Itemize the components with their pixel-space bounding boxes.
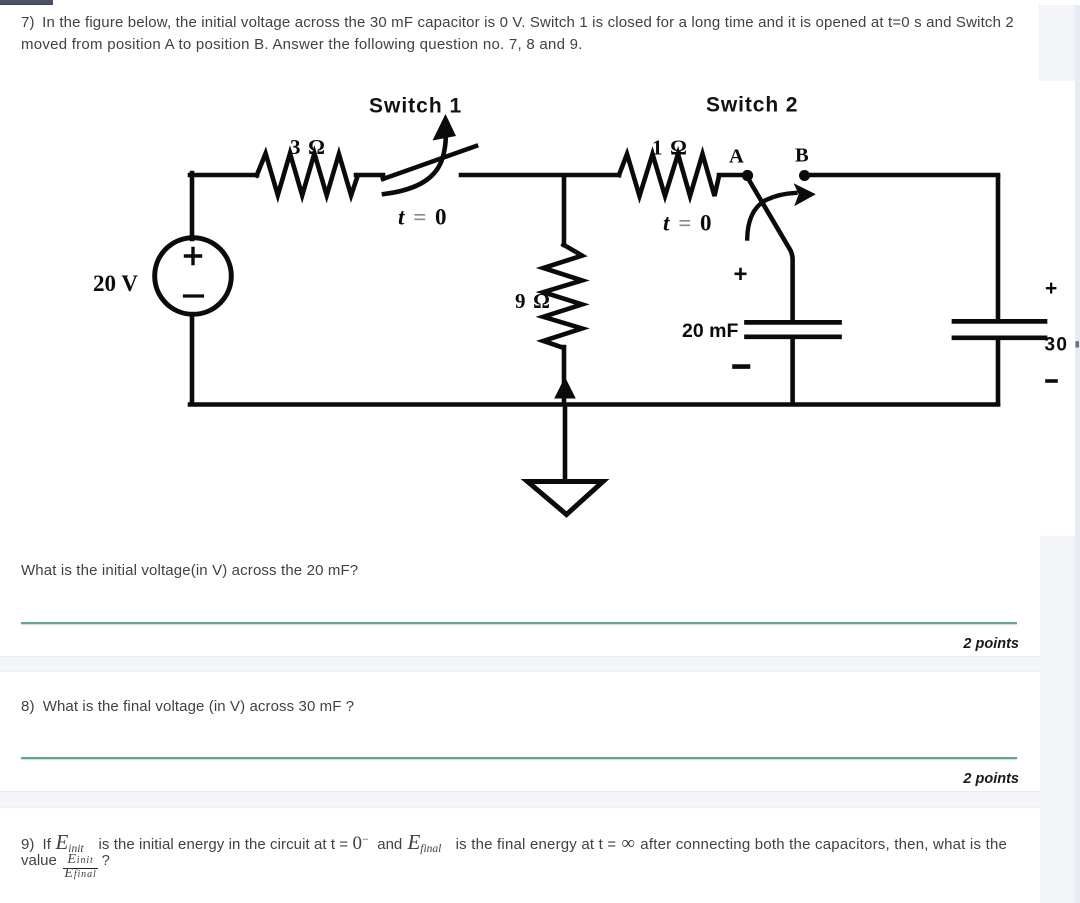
wire top-left horizontal segment (190, 173, 257, 178)
svg-text:20 mF: 20 mF (682, 320, 738, 342)
resistor R3 1 ohm (619, 154, 719, 196)
scrollbar strip far right (1075, 5, 1080, 903)
Q9 title line 1 (21, 830, 1007, 855)
ground (528, 482, 604, 515)
svg-text:t = 0: t = 0 (398, 205, 448, 230)
switch S1 opening arc with arrow (384, 114, 456, 194)
Q7 points (0, 636, 1019, 652)
wire 1ohm to node A (719, 173, 742, 178)
gap band between Q7 and Q8 cards (0, 656, 1040, 672)
svg-text:+: + (734, 261, 748, 288)
Q7 title (21, 12, 1014, 56)
switch S2 moving arrow A to B (747, 183, 816, 238)
wire resistor to switch1 pivot (356, 173, 383, 178)
capacitor C1 plus polarity (734, 261, 748, 288)
label Switch 1 (369, 95, 462, 118)
wire left vertical to source (190, 173, 195, 239)
wire 9ohm branch top (562, 177, 567, 245)
label 30 (mF cropped) (1045, 335, 1069, 356)
svg-text:Switch 1: Switch 1 (369, 95, 462, 118)
ground arrow on branch (554, 377, 576, 399)
resistor R2 9 ohm (543, 245, 582, 348)
ground stem below rail (563, 406, 568, 479)
capacitor C1 minus polarity (735, 364, 749, 369)
resistor R1 3 ohm (257, 153, 358, 195)
Q9 title line 2 with fraction (21, 852, 110, 882)
wire source bottom to bottom rail (190, 315, 195, 405)
wire right branch vertical top (996, 177, 1001, 320)
Q8 title (21, 698, 354, 715)
label t = 0 (switch 1) (398, 205, 448, 230)
label 3 ohm (290, 135, 326, 159)
node B (799, 170, 810, 181)
capacitor C2 plus polarity (1045, 277, 1057, 300)
page background grey right column lower block (1040, 536, 1075, 903)
label 9 ohm (515, 289, 551, 313)
switch S2 blade from A down to capacitor (749, 180, 793, 321)
label 20 V (93, 271, 138, 296)
wire node B to right corner (808, 173, 998, 178)
label mF fragment clipped (1076, 341, 1080, 347)
capacitor C1 20mF plates (747, 322, 840, 336)
CIRCUIT FIGURE (0, 0, 1080, 560)
switch S1 blade (383, 146, 476, 179)
label Switch 2 (706, 94, 798, 117)
svg-text:9 Ω: 9 Ω (515, 289, 551, 313)
capacitor C2 minus polarity (1047, 379, 1056, 383)
wire switch1 to resistor R3 (461, 173, 619, 178)
label A (729, 146, 744, 168)
wire bottom rail (190, 402, 998, 407)
svg-text:t = 0: t = 0 (663, 211, 713, 236)
svg-text:3 Ω: 3 Ω (290, 135, 326, 159)
capacitor C2 30mF plates (954, 321, 1045, 337)
svg-text:B: B (795, 145, 809, 167)
svg-text:30: 30 (1045, 335, 1069, 356)
Q7 sub-question (21, 562, 358, 579)
voltage source V1 20V (155, 238, 232, 315)
Q8 points (0, 771, 1019, 787)
wire 9ohm branch bottom (562, 347, 567, 403)
page background grey right column top block (1039, 5, 1075, 81)
svg-text:Switch 2: Switch 2 (706, 94, 798, 117)
svg-text:20 V: 20 V (93, 271, 138, 296)
node A (742, 170, 753, 181)
label 1 ohm (652, 136, 688, 160)
wire capacitor C2 to bottom rail (996, 339, 1001, 404)
header dark bar fragment (0, 0, 53, 5)
label 20 mF (682, 320, 738, 342)
Q7 answer line (21, 622, 1017, 624)
Q8 answer line (21, 757, 1017, 759)
label t = 0 (switch 2) (663, 211, 713, 236)
svg-text:+: + (1045, 277, 1057, 300)
wire capacitor C1 to bottom rail (790, 338, 795, 404)
gap band between Q8 and Q9 cards (0, 791, 1040, 808)
svg-text:1 Ω: 1 Ω (652, 136, 688, 160)
label B (795, 145, 809, 167)
svg-text:A: A (729, 146, 744, 168)
